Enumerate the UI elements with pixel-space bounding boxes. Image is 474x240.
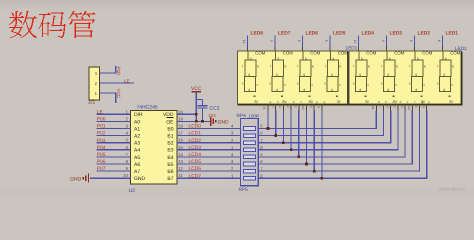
svg-text:COM: COM [422,51,432,56]
svg-text:104: 104 [208,113,216,118]
svg-text:20: 20 [178,109,183,114]
svg-text:LCD0: LCD0 [189,124,202,130]
display module LED1 body [238,46,358,106]
svg-text:P02: P02 [97,131,106,137]
svg-text:f: f [325,65,326,69]
svg-text:LED4: LED4 [362,30,375,36]
svg-text:e: e [269,82,271,86]
power VCC symbol [191,86,202,121]
svg-text:dp: dp [365,100,369,104]
display LED1 bottom pin 2 [286,100,295,111]
svg-text:GND: GND [218,120,230,126]
svg-text:f: f [437,65,438,69]
7-seg digit drawing [384,51,396,92]
svg-text:15: 15 [178,145,183,150]
svg-text:LED2: LED2 [418,30,431,36]
svg-text:b: b [452,65,454,69]
svg-text:b: b [424,65,426,69]
svg-text:d: d [276,88,278,92]
display LED1 bottom pin 3 [317,100,326,111]
wire U2 pin 4 [97,131,131,136]
svg-text:1: 1 [294,106,298,108]
svg-text:COM: COM [450,51,460,56]
svg-text:f: f [414,100,415,104]
junction node [267,127,270,130]
svg-text:A6: A6 [134,162,140,168]
svg-text:A7: A7 [134,169,140,175]
svg-text:11: 11 [263,106,267,110]
svg-text:b: b [340,65,342,69]
7-seg digit LED7 COM pin [270,36,294,56]
svg-text:c: c [368,83,370,87]
junction node [305,163,308,166]
svg-text:f: f [297,65,298,69]
svg-text:B5: B5 [167,162,173,168]
svg-text:P01: P01 [97,124,106,130]
svg-text:b: b [368,65,370,69]
display LED2 bottom pin 10 [407,100,415,111]
svg-text:14: 14 [178,152,183,157]
resistor RP element 2 [231,131,263,138]
resistor RP element 8 [231,173,263,180]
svg-text:13: 13 [178,159,183,164]
svg-text:LED5: LED5 [333,30,346,36]
svg-text:a: a [305,57,307,61]
svg-text:A1: A1 [134,126,140,132]
svg-text:c: c [424,83,426,87]
wire LED1 pin 7 drop [275,111,277,137]
svg-text:6: 6 [437,40,441,42]
svg-text:16: 16 [178,138,183,143]
title text 数码管 [9,11,96,38]
wire U2 pin 14 net LCD4 [177,152,241,157]
svg-text:b: b [285,65,287,69]
7-seg digit drawing [356,51,368,92]
svg-text:d: d [331,88,333,92]
svg-text:P10: P10 [116,67,121,76]
svg-text:a: a [332,57,334,61]
7-seg digit drawing [245,51,257,92]
svg-text:a: a [445,57,447,61]
wire segment net g to displays [258,111,419,172]
svg-text:d: d [443,88,445,92]
svg-text:f: f [409,65,410,69]
svg-text:d: d [303,88,305,92]
svg-text:g: g [443,73,445,77]
svg-text:a: a [250,57,252,61]
connector J21 [88,67,100,105]
resistor RP element 1 [231,124,263,131]
svg-text:8: 8 [409,40,413,42]
svg-text:B7: B7 [167,176,173,182]
wire LED1 pin 1 drop [298,111,300,158]
svg-text:A5: A5 [134,155,140,161]
7-seg digit LED4 COM pin [353,36,377,56]
wire U2 pin 3 [97,124,131,129]
svg-text:g: g [248,73,250,77]
svg-text:g: g [276,73,278,77]
resistor RP element 6 [231,159,263,166]
wire U2 pin 13 net LCD5 [177,159,241,164]
node cap-gnd junction [201,120,204,123]
wire LED1 pin 5 drop [313,111,315,172]
svg-text:f: f [353,65,354,69]
svg-text:LED6: LED6 [306,30,319,36]
svg-text:10: 10 [407,106,411,110]
svg-text:COM: COM [366,51,376,56]
wire LED1 pin 11 drop [267,111,269,130]
junction node [321,177,324,180]
svg-text:B1: B1 [167,134,173,140]
svg-text:d: d [248,88,250,92]
svg-text:B2: B2 [167,141,173,147]
svg-text:18: 18 [178,124,183,129]
svg-text:5: 5 [414,106,418,108]
svg-text:e: e [409,82,411,86]
svg-text:LCD4: LCD4 [189,152,202,158]
svg-text:1: 1 [400,106,404,108]
svg-text:COM: COM [255,51,265,56]
svg-text:g: g [415,73,417,77]
wire LED1 pin 4 drop [282,111,284,144]
svg-text:f: f [381,65,382,69]
svg-text:LE: LE [97,109,104,115]
svg-text:a: a [417,57,419,61]
svg-text:P06: P06 [97,159,106,165]
svg-text:b: b [312,65,314,69]
display LED1 bottom pin 11 [263,100,272,111]
svg-text:LCD5: LCD5 [189,159,202,165]
svg-text:B0: B0 [167,126,173,132]
display LED2 bottom pin 5 [414,100,423,111]
wire segment net a to displays [258,111,376,130]
wire J2 pin3 to net P10 [100,66,116,74]
svg-text:GND: GND [134,176,146,182]
svg-text:A0: A0 [134,119,140,125]
svg-text:g: g [387,73,389,77]
display LED2 bottom pin 11 [371,100,380,111]
svg-text:GND: GND [70,176,82,182]
wire U2 pin 2 [97,116,131,121]
node OE junction [195,120,198,123]
svg-text:b: b [257,65,259,69]
wire LED1 pin 10 drop [306,111,308,165]
svg-text:P03: P03 [97,138,106,144]
display LED2 bottom pin 4 [385,100,394,111]
wire J2 pin2 to net LE [100,82,135,84]
svg-text:LCD3: LCD3 [189,145,202,151]
svg-text:12: 12 [242,40,246,44]
svg-text:f: f [270,65,271,69]
svg-text:d: d [387,88,389,92]
svg-text:9: 9 [381,40,385,42]
svg-text:A2: A2 [134,134,140,140]
svg-text:COM: COM [394,51,404,56]
display LED2 bottom pin 3 [421,100,430,111]
svg-text:3: 3 [317,106,321,108]
svg-text:b: b [396,65,398,69]
wire U2 pin19 (OE) to GND [177,120,210,122]
svg-text:c: c [312,83,314,87]
svg-text:8: 8 [297,40,301,42]
display LED2 bottom pin 1 [400,100,409,111]
wire U2 pin 18 net LCD0 [177,124,241,129]
wire U2 pin 11 net LCD7 [177,173,241,178]
junction node [274,134,277,137]
svg-text:12: 12 [353,40,357,44]
resistor RP element 7 [231,166,263,173]
svg-text:A3: A3 [134,141,140,147]
wire U2 pin 7 [97,152,131,157]
svg-text:VCC: VCC [116,89,121,99]
svg-text:P04: P04 [97,145,106,151]
svg-text:c: c [257,83,259,87]
junction node [297,156,300,159]
svg-text:d: d [415,88,417,92]
svg-text:2: 2 [286,106,290,108]
svg-text:c: c [284,83,286,87]
resistor RP element 3 [231,138,263,145]
7-seg digit LED6 COM pin [297,36,321,56]
7-seg digit LED8 COM pin [242,36,266,56]
7-seg digit drawing [300,51,312,92]
wire segment net p to displays [258,111,427,179]
junction node [282,141,285,144]
display module LED2 body [349,46,467,105]
svg-text:LCD7: LCD7 [189,173,202,179]
wire U2 pin 15 net LCD3 [177,145,241,150]
ground symbol at CC2/OE [211,117,229,126]
display LED1 bottom pin 4 [278,100,287,111]
resistor RP element 5 [231,152,263,159]
svg-text:LED8: LED8 [251,30,264,36]
svg-text:17: 17 [178,131,183,136]
svg-text:e: e [381,82,383,86]
svg-text:dp: dp [309,100,313,104]
wire U2 pin 5 [97,138,131,143]
svg-text:LCD2: LCD2 [189,138,202,144]
svg-text:2: 2 [393,106,397,108]
svg-text:g: g [331,73,333,77]
wire U2 pin20 (VDD) to VCC [177,113,196,115]
display LED1 bottom pin 10 [301,100,309,111]
wire U2 pin 8 [97,159,131,164]
wire LED1 pin 2 drop [290,111,292,151]
svg-text:11: 11 [178,173,183,178]
svg-text:B6: B6 [167,169,173,175]
7-seg digit drawing [412,51,424,92]
svg-text:d: d [359,88,361,92]
wire U2 pin 6 [97,145,131,150]
wire segment net c to displays [258,111,391,144]
svg-text:LCD1: LCD1 [189,131,202,137]
svg-text:12: 12 [178,166,183,171]
svg-text:e: e [353,82,355,86]
svg-text:a: a [277,57,279,61]
wire U2 pin 17 net LCD1 [177,131,241,136]
svg-text:100R: 100R [249,114,260,119]
svg-text:c: c [396,83,398,87]
capacitor CC2 104 [196,100,219,122]
svg-text:COM: COM [283,51,293,56]
svg-text:g: g [303,73,305,77]
wire U2 pin 1 [97,109,131,114]
7-seg digit drawing [272,51,284,92]
svg-text:a: a [389,57,391,61]
svg-text:19: 19 [178,116,183,121]
svg-text:RP5: RP5 [239,187,249,193]
display LED1 bottom pin 5 [309,100,318,111]
svg-text:c: c [339,83,341,87]
svg-text:5: 5 [309,106,313,108]
7-seg digit LED2 COM pin [409,36,433,56]
svg-text:B4: B4 [167,155,173,161]
svg-text:e: e [242,82,244,86]
svg-text:P07: P07 [97,166,106,172]
svg-text:9: 9 [270,40,274,42]
wire U2 pin 16 net LCD2 [177,138,241,143]
svg-text:LED3: LED3 [390,30,403,36]
svg-text:LCD6: LCD6 [189,166,202,172]
svg-text:U2: U2 [129,188,136,194]
wire segment net d to displays [258,111,398,151]
svg-text:4: 4 [385,106,389,108]
svg-text:DIR: DIR [134,112,143,118]
7-seg digit LED5 COM pin [325,36,349,56]
svg-text:dp: dp [254,100,258,104]
display LED1 bottom pin 7 [270,100,279,111]
svg-text:P00: P00 [97,117,106,123]
svg-text:B3: B3 [167,148,173,154]
svg-text:f: f [242,65,243,69]
svg-text:LE: LE [124,78,130,83]
7-seg digit drawing [327,51,339,92]
svg-text:6: 6 [325,40,329,42]
svg-text:10: 10 [123,173,128,178]
ground symbol at U2 pin10 [70,174,88,183]
junction node [313,170,316,173]
svg-text:10: 10 [301,106,305,110]
svg-text:a: a [361,57,363,61]
wire J2 pin1 to net VCC [100,92,116,103]
svg-text:7: 7 [378,106,382,108]
svg-text:A4: A4 [134,148,140,154]
svg-text:e: e [297,82,299,86]
svg-text:COM: COM [310,51,320,56]
svg-text:OE: OE [166,119,174,125]
wire U2 pin 9 [97,166,131,171]
svg-text:4: 4 [278,106,282,108]
resistor pack RP4 100R [237,113,260,186]
7-seg digit drawing [440,51,452,92]
svg-text:e: e [437,82,439,86]
svg-text:g: g [359,73,361,77]
display LED1 bottom pin 1 [294,100,303,111]
svg-text:P05: P05 [97,152,106,158]
wire U2 pin 10 [90,173,131,178]
svg-text:3: 3 [421,106,425,108]
wire segment net f to displays [258,111,412,165]
svg-text:LED1: LED1 [446,30,459,36]
junction node [290,149,293,152]
7-seg digit LED3 COM pin [381,36,405,56]
resistor RP element 4 [231,145,263,152]
svg-text:CSDN @60-23: CSDN @60-23 [438,187,466,192]
wire LED1 pin 3 drop [321,111,323,179]
svg-text:CC2: CC2 [210,106,220,112]
svg-text:dp: dp [449,100,453,104]
7-seg digit LED1 COM pin [437,36,461,56]
svg-text:7: 7 [270,106,274,108]
svg-text:dp: dp [337,100,341,104]
svg-text:74HC245: 74HC245 [137,105,158,111]
svg-text:c: c [452,83,454,87]
svg-text:11: 11 [371,106,375,110]
display LED2 bottom pin 7 [378,100,387,111]
wire U2 pin 12 net LCD6 [177,166,241,171]
wire segment net e to displays [258,111,405,158]
wire segment net b to displays [258,111,383,137]
op IC U2 74HC245 body [129,105,178,194]
svg-text:e: e [324,82,326,86]
svg-text:J21: J21 [88,100,96,105]
display LED2 bottom pin 2 [393,100,402,111]
svg-text:LED7: LED7 [278,30,291,36]
node VDD junction [195,113,198,116]
svg-text:COM: COM [338,51,348,56]
